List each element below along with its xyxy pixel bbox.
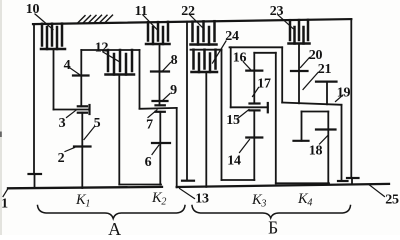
leader 8 — [163, 63, 171, 71]
frame right edge — [350, 19, 352, 176]
clutch 3 lower half — [78, 112, 87, 114]
scan speck — [0, 132, 2, 138]
brake 10 (multi-disc, on casing) — [41, 24, 65, 49]
svg-text:7: 7 — [146, 118, 153, 133]
gear 6 tick — [152, 142, 170, 144]
inner hanger of gear 16 — [254, 52, 275, 54]
brake 11 (multi-disc, on casing) — [146, 22, 170, 44]
stem of clutch 12 — [118, 75, 120, 185]
hanger of clutch 24 — [191, 49, 222, 51]
brake 23 (multi-disc, on casing) — [289, 20, 310, 44]
frame left edge — [33, 24, 35, 174]
svg-text:23: 23 — [270, 4, 284, 19]
left support bar on shaft 1 — [29, 173, 42, 175]
shaft of gear 6 — [159, 112, 161, 185]
brace B — [192, 206, 351, 219]
gear 20 tick — [291, 70, 308, 72]
gear 2 tick — [74, 145, 91, 147]
shaft 13 (section B) — [177, 184, 389, 187]
left support stem — [34, 174, 36, 188]
box 16 top — [230, 46, 283, 48]
svg-text:8: 8 — [171, 53, 178, 68]
foot bar — [338, 180, 348, 182]
clutch 15 lower half — [250, 109, 260, 111]
leader 20 — [301, 58, 310, 68]
right wall of box 16 to shaft — [275, 53, 277, 184]
svg-text:А: А — [108, 219, 121, 235]
leader 14 — [240, 140, 250, 153]
svg-text:21: 21 — [318, 62, 332, 77]
ground hatching — [78, 15, 113, 23]
svg-text:24: 24 — [225, 29, 239, 44]
frame top line (casing) — [33, 19, 351, 24]
svg-text:22: 22 — [181, 4, 195, 19]
leader 13 — [180, 189, 195, 199]
leader 25 — [370, 185, 385, 197]
gear 9 tick — [153, 100, 168, 102]
leader 17 — [253, 88, 259, 97]
leader 16 — [244, 62, 251, 70]
gear 14 tick — [246, 136, 262, 138]
leader 10 — [35, 14, 53, 30]
link line to gear 21 drum — [282, 103, 341, 105]
gear 21 bar — [316, 80, 337, 82]
box 18 left wall — [301, 112, 303, 141]
leader 9 — [163, 94, 171, 101]
svg-text:20: 20 — [309, 48, 323, 63]
stem of 21 — [326, 82, 328, 105]
leader 23 — [278, 15, 293, 29]
corner riser right of box 16 — [281, 47, 283, 102]
foot bar of left wall — [294, 140, 309, 142]
svg-text:K4: K4 — [297, 191, 312, 209]
clutch 7 horizontal link — [140, 107, 177, 110]
leader 2 — [65, 148, 75, 152]
svg-text:1: 1 — [1, 197, 8, 212]
junction bar above shaft 1 — [119, 184, 161, 186]
right support bar — [347, 177, 359, 179]
clutch 24 (multi-disc) — [192, 50, 218, 72]
drum wall down to foot — [341, 105, 343, 181]
svg-text:11: 11 — [135, 4, 148, 19]
long drum wall with foot on shaft 13 — [186, 22, 188, 181]
leader 12 — [103, 52, 119, 62]
leader 5 — [84, 127, 95, 140]
stem of brake 10 — [53, 49, 55, 110]
foot bar — [182, 180, 194, 182]
leader 18 — [320, 136, 328, 145]
riser to shaft 13 — [176, 108, 178, 187]
svg-text:K3: K3 — [251, 192, 266, 210]
svg-text:10: 10 — [26, 2, 40, 17]
svg-text:Б: Б — [268, 218, 278, 236]
clutch 7 lower half — [156, 111, 165, 113]
clutch 3 horizontal link with end stop — [54, 109, 90, 111]
leader 11 — [143, 15, 158, 31]
clutch 12 (multi-disc) — [106, 50, 135, 75]
leader 15 — [237, 110, 249, 120]
shaft of gears 8 and 9 — [159, 44, 161, 105]
gear 16 tick — [246, 69, 262, 71]
gear 18 tick — [316, 128, 336, 130]
svg-text:14: 14 — [227, 154, 241, 169]
svg-text:15: 15 — [226, 113, 240, 128]
box 18 top — [302, 111, 329, 113]
brake 22 (multi-disc, on casing) — [191, 21, 217, 44]
svg-text:25: 25 — [385, 193, 399, 208]
svg-text:9: 9 — [170, 83, 177, 98]
svg-text:K1: K1 — [75, 192, 90, 210]
scan edge artifact — [0, 0, 2, 235]
leader 21 — [303, 73, 318, 90]
clutch 15 horizontal link with end stop — [231, 106, 268, 108]
svg-text:13: 13 — [195, 192, 209, 207]
svg-text:K2: K2 — [151, 190, 166, 208]
clutch 3 upper half — [78, 105, 87, 107]
leader 19 — [336, 95, 344, 102]
brace A — [38, 206, 186, 219]
leader 24 — [213, 41, 227, 63]
clutch 15 upper half — [250, 102, 260, 104]
box 16 left wall — [230, 47, 232, 107]
stem of brake 23 / gear 20 shaft — [298, 44, 300, 104]
svg-text:12: 12 — [95, 41, 109, 56]
gear 4 tick — [73, 74, 89, 76]
stem of clutch 24 to shaft 13 — [205, 72, 207, 187]
leader 7 — [148, 110, 157, 118]
svg-text:4: 4 — [64, 58, 71, 73]
shaft 1 (input, section A) — [8, 187, 162, 188]
hanger line from gear 4 shaft — [81, 49, 139, 51]
leader 6 — [152, 145, 159, 155]
bottom bar under box 18 — [276, 182, 329, 184]
carrier bottom bar (section B left) — [222, 179, 255, 181]
svg-text:18: 18 — [309, 144, 323, 159]
leader 4 — [70, 68, 80, 75]
svg-text:2: 2 — [58, 151, 65, 166]
shaft of gear 4 — [80, 50, 82, 106]
leader 22 — [190, 15, 204, 29]
svg-text:17: 17 — [257, 77, 271, 92]
drum wall right of clutch 12 — [139, 50, 141, 109]
right support stem — [351, 178, 353, 185]
shaft of gears 16/14 — [253, 53, 255, 104]
svg-text:6: 6 — [145, 155, 152, 170]
svg-text:3: 3 — [59, 116, 66, 131]
leader 3 — [67, 110, 77, 118]
leader 1 — [3, 189, 8, 197]
clutch 7 upper half — [156, 104, 165, 106]
svg-text:5: 5 — [94, 116, 101, 131]
shaft below clutch 3 to input shaft — [81, 113, 83, 188]
box 18 right wall / gear 18 shaft — [327, 112, 329, 184]
riser from hanger to carrier bar — [221, 50, 223, 180]
gear 8 tick — [151, 70, 169, 72]
